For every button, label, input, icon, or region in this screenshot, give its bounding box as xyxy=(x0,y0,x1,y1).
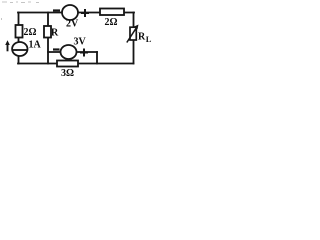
polarity minus of 2V xyxy=(53,9,60,11)
resistor 3ohm bottom xyxy=(57,61,78,80)
rheostat RL xyxy=(127,25,152,45)
svg-text:R: R xyxy=(138,32,146,43)
polarity plus of 2V xyxy=(81,12,89,14)
chord of current source xyxy=(12,49,27,51)
wire 3V branch horizontal xyxy=(48,51,97,53)
arrow of current source xyxy=(7,44,9,52)
resistor 2ohm top xyxy=(100,9,124,28)
polarity minus of 3V xyxy=(53,48,60,50)
polarity plus of 3V xyxy=(80,52,88,54)
svg-text:R: R xyxy=(51,28,59,39)
wire bottom xyxy=(18,63,134,65)
current source I1 1A xyxy=(5,40,41,57)
svg-text:2V: 2V xyxy=(66,19,79,30)
arrow of RL xyxy=(127,27,137,43)
wire 3V branch drop xyxy=(96,52,98,64)
resistor R middle xyxy=(44,26,59,39)
voltage source V1 2V xyxy=(53,5,89,30)
svg-text:1A: 1A xyxy=(29,40,42,51)
svg-text:3Ω: 3Ω xyxy=(61,68,74,79)
wire right branch xyxy=(133,13,135,64)
wire left branch xyxy=(18,13,20,64)
resistor 2ohm left xyxy=(16,25,37,38)
voltage source V2 3V xyxy=(53,37,88,60)
svg-text:3V: 3V xyxy=(74,37,87,48)
wire middle branch xyxy=(47,13,49,64)
svg-text:L: L xyxy=(146,34,152,44)
svg-text:2Ω: 2Ω xyxy=(24,27,37,38)
wire top xyxy=(18,12,134,14)
svg-text:2Ω: 2Ω xyxy=(105,17,118,28)
